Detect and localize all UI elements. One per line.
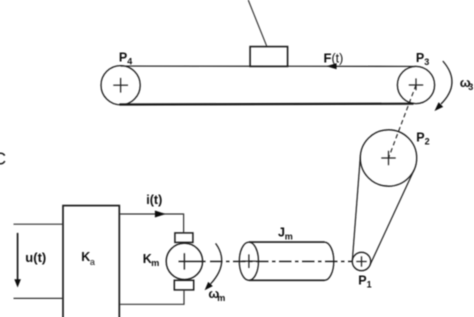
svg-text:1: 1 — [367, 279, 372, 289]
voltage arrow u(t) — [14, 233, 21, 288]
pulley P2 — [360, 130, 416, 186]
shaft centre line — [179, 260, 353, 262]
rotation arrow omega_m — [205, 243, 222, 290]
svg-text:m: m — [151, 258, 159, 268]
svg-text:3: 3 — [424, 57, 429, 67]
belt P2-P1 right tangent — [370, 170, 414, 266]
svg-text:m: m — [217, 293, 225, 303]
input wire bottom — [14, 297, 64, 299]
rotation arrow omega3 — [435, 61, 452, 111]
svg-text:2: 2 — [425, 137, 430, 147]
svg-text:P: P — [416, 131, 424, 145]
motor Km — [166, 233, 202, 290]
svg-text:3: 3 — [468, 82, 473, 92]
label F(t) — [324, 51, 344, 66]
label P4 — [119, 51, 132, 67]
mass box on belt — [250, 47, 288, 67]
rod line to mass — [248, 0, 267, 47]
belt bottom line — [120, 103, 414, 106]
label Km — [143, 252, 160, 268]
label P3 — [416, 51, 429, 67]
svg-text:(t): (t) — [332, 52, 344, 66]
input wire top — [14, 223, 64, 225]
svg-text:P: P — [358, 273, 366, 287]
svg-text:m: m — [285, 231, 293, 241]
label Ka — [81, 250, 95, 267]
svg-text:u(t): u(t) — [25, 250, 46, 265]
svg-text:i(t): i(t) — [146, 193, 162, 207]
force arrow F(t) — [326, 63, 336, 69]
label omega_m — [208, 286, 225, 303]
pulley P4 — [101, 66, 140, 105]
return wire bottom — [119, 290, 184, 304]
label Jm — [278, 225, 293, 241]
label P2 — [416, 131, 429, 147]
svg-text:4: 4 — [127, 57, 132, 67]
belt top line — [121, 65, 416, 67]
inertia cylinder Jm — [239, 242, 333, 280]
pulley P3 — [397, 66, 434, 103]
svg-text:C: C — [0, 149, 6, 169]
svg-text:F: F — [324, 51, 332, 66]
dashed centre line P3 to P2 — [389, 85, 417, 158]
svg-text:a: a — [90, 257, 95, 267]
pulley P1 — [352, 252, 370, 270]
current wire i(t) — [119, 214, 183, 233]
svg-text:P: P — [119, 51, 127, 65]
label P1 — [358, 273, 371, 289]
belt P2-P1 left tangent — [352, 156, 360, 261]
current arrowhead — [155, 211, 166, 218]
amplifier box Ka — [63, 206, 119, 317]
svg-text:P: P — [416, 51, 424, 65]
label omega3 — [460, 75, 474, 92]
